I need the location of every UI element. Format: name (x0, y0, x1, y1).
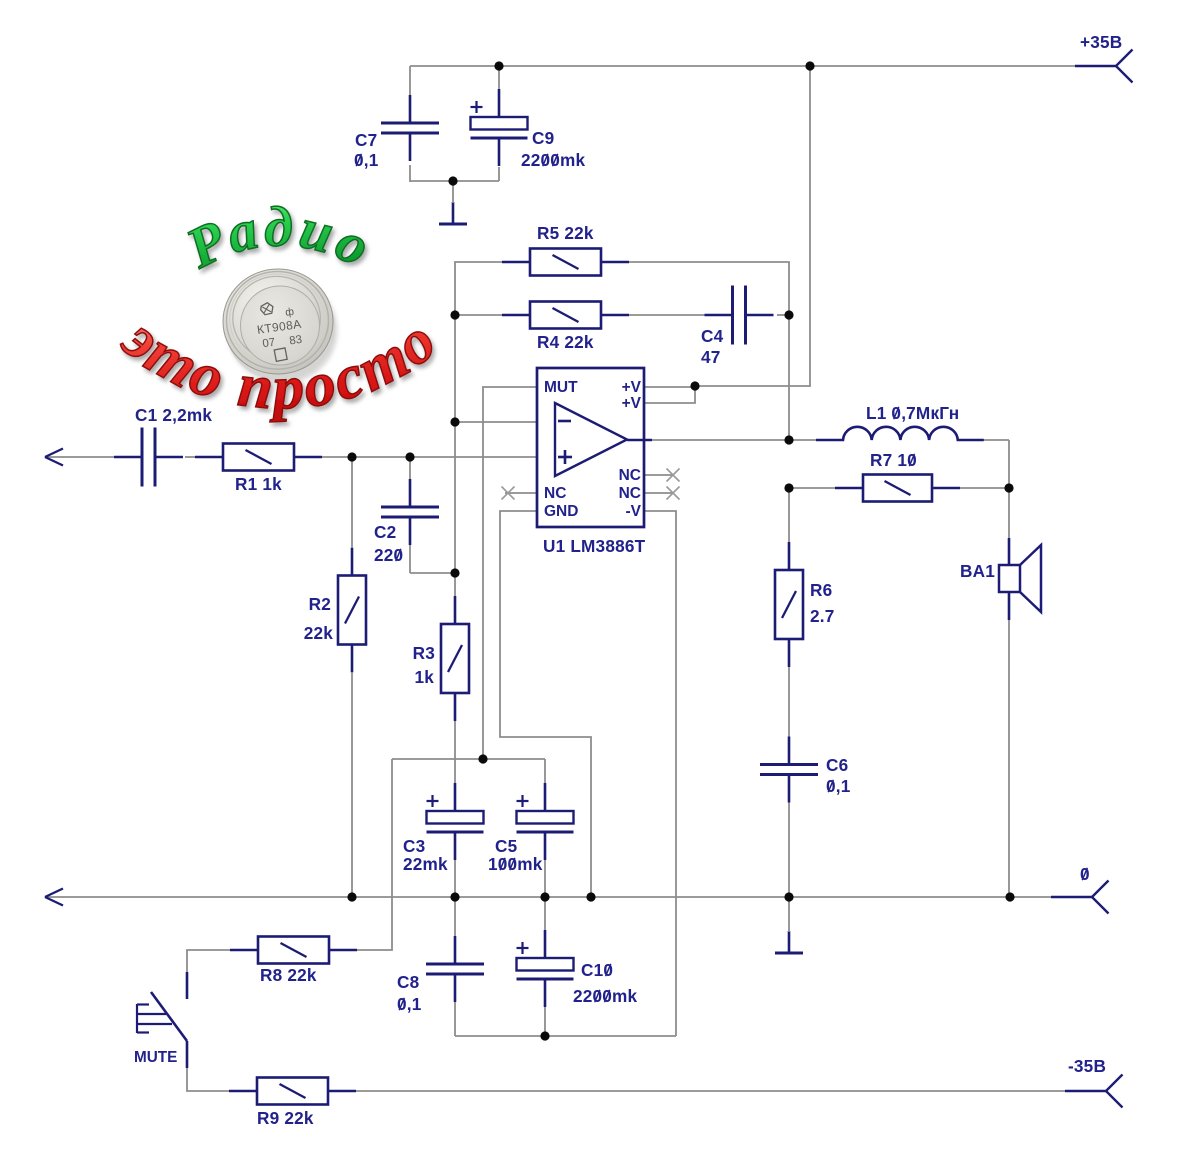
wire C2 branch (409, 457, 411, 480)
resistor R8 (258, 937, 329, 964)
node C4 right junction (784, 310, 793, 319)
op-amp U1 body (537, 368, 644, 527)
resistor R3 (441, 624, 469, 693)
svg-text:1k: 1k (414, 667, 434, 687)
svg-text:+V: +V (622, 379, 642, 396)
ground symbol top (452, 202, 455, 224)
svg-text:C5: C5 (495, 836, 518, 856)
capacitor C10 (polarized) (517, 958, 574, 971)
wire NC pin left stub (505, 492, 537, 494)
U1 non-inverting marker (558, 456, 572, 459)
wire +35V top rail (410, 65, 1075, 67)
resistor R5 (530, 249, 601, 276)
node speaker ground junction (1005, 892, 1014, 901)
node C2 bottom junction (450, 568, 459, 577)
resistor R2 (338, 576, 366, 645)
connector 0 (1051, 896, 1092, 898)
svg-text:MUT: MUT (544, 379, 578, 396)
svg-text:L1 0,7МкГн: L1 0,7МкГн (866, 403, 959, 423)
svg-text:2200mk: 2200mk (521, 150, 586, 170)
resistor R7 (863, 475, 932, 502)
wire R2 branch vertical (351, 457, 353, 547)
U1 output lead (627, 439, 652, 442)
wire mute rail above C3/C5 (392, 758, 545, 760)
ground bus arrow (45, 889, 63, 898)
wire C7 branch verticals and bottom loop (409, 66, 411, 95)
capacitor C3 (polarized) (427, 811, 484, 824)
svg-text:2.7: 2.7 (810, 606, 835, 626)
wire C3 bottom to ground bus (454, 860, 456, 897)
node +V junction (690, 381, 699, 390)
wire R3 to C3 (454, 721, 456, 784)
wire C5 bottom to ground bus (544, 860, 546, 897)
node C5/C10 junction (540, 892, 549, 901)
svg-text:R3: R3 (413, 643, 435, 663)
svg-text:-35В: -35В (1068, 1056, 1106, 1076)
node C10 bottom junction (540, 1031, 549, 1040)
wire C6 to ground bus (788, 802, 790, 897)
wire output of U1 (650, 439, 789, 441)
wire negative loop bottom rail (455, 1035, 676, 1037)
svg-text:R7 10: R7 10 (870, 450, 917, 470)
svg-text:NC: NC (619, 467, 641, 484)
svg-text:NC: NC (544, 485, 566, 502)
svg-text:C7: C7 (355, 130, 377, 150)
svg-text:U1 LM3886T: U1 LM3886T (543, 536, 646, 556)
wire main input line (47, 456, 114, 458)
wire R8 left to mute switch (187, 950, 230, 972)
svg-text:+V: +V (622, 395, 642, 412)
connector +35V (1075, 65, 1116, 67)
node GND pin junction (586, 892, 595, 901)
resistor R6 (775, 570, 803, 639)
svg-text:0,1: 0,1 (354, 150, 379, 170)
wire R5 feedback net left (455, 262, 502, 422)
wire -V pin routing down (644, 511, 676, 1036)
svg-text:BA1: BA1 (960, 561, 995, 581)
capacitor C9 (polarized) (471, 117, 528, 130)
wire GND pin routing to ground bus (500, 511, 591, 897)
node +35V feed (805, 61, 814, 70)
wire NC right stubs (644, 474, 672, 476)
inductor L1 (816, 427, 984, 440)
wire +V drop from +35V rail (695, 66, 810, 386)
node mute rail junction (478, 754, 487, 763)
svg-text:R4 22k: R4 22k (537, 332, 594, 352)
svg-text:MUTE: MUTE (134, 1049, 177, 1066)
resistor R4 (530, 302, 601, 329)
node R7 right junction (1004, 483, 1013, 492)
svg-text:C2: C2 (374, 522, 396, 542)
capacitor C8 (426, 963, 484, 966)
svg-text:2200mk: 2200mk (573, 986, 638, 1006)
connector -35V (1065, 1090, 1106, 1092)
capacitor C6 (760, 763, 818, 766)
node C3/C8 junction (450, 892, 459, 901)
svg-text:C9: C9 (532, 128, 554, 148)
svg-text:22mk: 22mk (403, 854, 448, 874)
wire ground bus (47, 896, 1057, 898)
wire L1 section (789, 439, 816, 441)
svg-text:22k: 22k (304, 623, 334, 643)
svg-text:NC: NC (619, 485, 641, 502)
capacitor C2 (381, 506, 439, 509)
wire speaker bottom to ground bus (1008, 620, 1010, 897)
svg-text:C3: C3 (403, 836, 425, 856)
wire R6 branch (788, 488, 790, 547)
svg-text:-V: -V (626, 503, 642, 520)
wire R4 right to C4 (629, 314, 706, 316)
wire R9 right to -35V (356, 1090, 1065, 1092)
wire R5 right to output node (629, 262, 789, 440)
wire +V pin top (644, 386, 695, 388)
svg-text:+35В: +35В (1080, 32, 1122, 52)
svg-text:R6: R6 (810, 580, 832, 600)
wire speaker column (1008, 440, 1010, 538)
node R4/R5 left junction (450, 310, 459, 319)
wire MUT pin net (483, 387, 537, 759)
input arrow (45, 449, 63, 458)
switch MUTE (186, 972, 189, 999)
svg-text:83: 83 (289, 334, 303, 348)
capacitor C7 (381, 122, 439, 125)
ground symbol bottom (788, 931, 791, 953)
svg-text:C6: C6 (826, 755, 848, 775)
node inverting input (450, 417, 459, 426)
speaker BA1 (1008, 538, 1011, 565)
wire C8 branch (454, 897, 456, 937)
U1 inverting marker (558, 420, 571, 423)
wire C5 top corner (544, 759, 546, 784)
node R1 out to R2 (347, 452, 356, 461)
node R2 ground junction (347, 892, 356, 901)
wire R7 leads gray (789, 487, 835, 489)
svg-text:R1 1k: R1 1k (235, 474, 282, 494)
wire C10 branch (544, 897, 546, 931)
svg-text:R9 22k: R9 22k (257, 1108, 314, 1128)
node output junction (784, 435, 793, 444)
wire mute switch bottom to R9 (187, 1068, 229, 1091)
svg-text:47: 47 (701, 347, 721, 367)
svg-text:C8: C8 (397, 972, 420, 992)
wire inverting input to U1 (455, 421, 537, 423)
resistor R9 (257, 1078, 328, 1105)
node input to C2 (405, 452, 414, 461)
svg-text:100mk: 100mk (488, 854, 543, 874)
wire inverting node down to R3 (454, 422, 456, 596)
svg-text:0,1: 0,1 (397, 994, 422, 1014)
wire mute rail left drop to R8 (357, 759, 392, 950)
svg-text:0,1: 0,1 (826, 776, 851, 796)
node C9 top (494, 61, 503, 70)
wire R4 left (455, 314, 502, 316)
svg-text:R8 22k: R8 22k (260, 965, 317, 985)
node C7/C9 bottom junction (448, 176, 457, 185)
node R6/C6 ground junction (784, 892, 793, 901)
svg-text:07: 07 (262, 337, 276, 351)
svg-text:C1 2,2mk: C1 2,2mk (135, 405, 212, 425)
svg-text:R2: R2 (309, 594, 331, 614)
capacitor C5 (polarized) (517, 811, 574, 824)
svg-text:GND: GND (544, 503, 578, 520)
U1 NC cross marks (502, 487, 515, 500)
capacitor C1 (141, 428, 144, 487)
capacitor C4 (731, 286, 734, 345)
wire +V pin second (644, 387, 695, 403)
resistor R1 (223, 444, 294, 471)
logo transistor photo KT908A (223, 269, 335, 380)
svg-text:C4: C4 (701, 326, 724, 346)
svg-text:R5 22k: R5 22k (537, 223, 594, 243)
wire C4 right to feedback vertical (777, 314, 789, 316)
node R7 left junction (784, 483, 793, 492)
